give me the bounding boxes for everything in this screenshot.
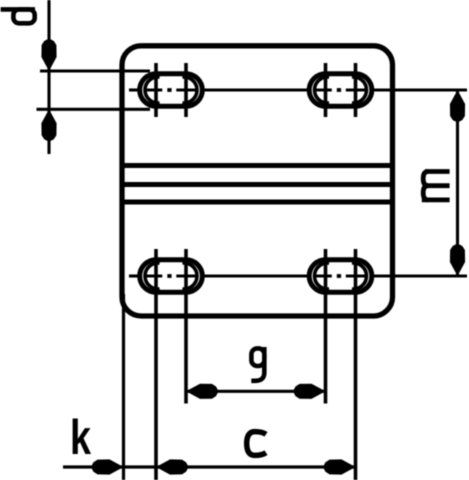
dimension c arrow right [324, 459, 356, 474]
extension line slot br outer tick down [354, 249, 358, 480]
dimension m arrow down [450, 245, 465, 277]
groove line 3 [122, 200, 393, 205]
label d [1, 9, 35, 23]
extension line slot bl outer tick down [154, 249, 158, 480]
slot top-left arc right [182, 77, 197, 103]
extension line slot br inner tick down [324, 249, 328, 404]
slot top-left obround [140, 74, 203, 107]
dimension d extension line top [40, 69, 150, 72]
dimension g line [186, 390, 326, 393]
slot bottom-left obround [140, 260, 203, 293]
slot top-right arc right [352, 77, 367, 103]
slot bottom-right arc left [314, 263, 329, 289]
dimension k/c line [63, 465, 356, 468]
slot top-right obround [309, 74, 372, 107]
dimension d extension line bottom [37, 108, 151, 111]
dimension m line [456, 90, 459, 276]
dimension k arrow right [92, 459, 124, 474]
dimension d line [47, 0, 50, 154]
groove line 2 [122, 182, 393, 187]
dimension d arrow up [41, 109, 56, 141]
slot top-right tick right [354, 63, 358, 117]
dimension c arrow left [156, 459, 188, 474]
slot top-left tick left [154, 63, 158, 117]
extension line plate left edge down [122, 294, 125, 480]
dimension d arrow down [41, 40, 56, 72]
slot top-left arc left [145, 77, 160, 103]
dimension m arrow up [450, 90, 465, 122]
extension line slot bl inner tick down [184, 249, 188, 404]
centerline top slots y=90 [129, 88, 467, 92]
slot bottom-right arc right [352, 263, 367, 289]
label c [247, 432, 266, 456]
centerline bottom slots y=276 [129, 274, 467, 278]
slot top-right arc left [314, 77, 329, 103]
slot bottom-left arc left [145, 263, 160, 289]
dimension g arrow left [186, 384, 218, 399]
slot bottom-right obround [309, 260, 372, 293]
label k [73, 418, 91, 454]
slot top-left tick right [184, 63, 188, 117]
label g [251, 347, 264, 381]
plate outline [122, 46, 393, 316]
slot top-right tick left [324, 63, 328, 117]
label m [422, 172, 450, 200]
dimension g arrow right [294, 384, 326, 399]
groove line 1 [122, 163, 393, 168]
slot bottom-left arc right [182, 263, 197, 289]
